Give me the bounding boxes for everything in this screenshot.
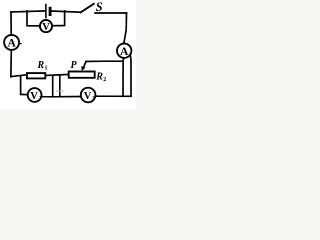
- svg-text:2: 2: [103, 77, 106, 83]
- wire switch to top-right corner: [95, 12, 127, 14]
- wire V3 left to junction leg: [60, 76, 81, 97]
- rheostat slider arrow wire: [86, 60, 123, 62]
- voltmeter V1: [40, 20, 52, 32]
- scan smudge: [56, 90, 64, 93]
- battery cell short thick plate: [49, 8, 52, 14]
- wire R1 to R2: [45, 74, 68, 75]
- rheostat slider arrowhead: [83, 62, 86, 69]
- svg-text:R: R: [95, 71, 103, 82]
- svg-text:V: V: [84, 91, 92, 102]
- svg-text:A: A: [7, 38, 16, 50]
- ammeter A1 terminal tick: [20, 43, 22, 45]
- wire battery to switch: [52, 11, 81, 12]
- svg-text:P: P: [71, 60, 78, 71]
- svg-text:R: R: [37, 60, 45, 71]
- voltmeter V2: [28, 88, 42, 102]
- wire A2 bottom stub to slider junction: [122, 58, 125, 61]
- wire A2 right-bottom down right outer leg: [129, 54, 132, 96]
- ammeter A2: [117, 44, 131, 58]
- voltmeter V2 loop left leg: [21, 76, 28, 95]
- wire rail segment V2 leg to V3 leg: [53, 96, 60, 98]
- wire V2 right to junction leg: [42, 77, 53, 97]
- voltmeter V1 loop right leg: [52, 11, 64, 26]
- branch wire left corner to R1: [11, 75, 27, 77]
- voltmeter V3: [81, 88, 96, 103]
- switch S blade: [81, 4, 94, 13]
- ammeter A1: [4, 35, 19, 50]
- wire right vertical down to ammeter A2: [124, 13, 127, 44]
- wire A1 to bottom-left corner: [10, 50, 12, 77]
- wire left vertical (top corner to A1): [10, 12, 12, 35]
- svg-text:V: V: [30, 91, 38, 102]
- svg-text:V: V: [42, 22, 50, 33]
- rheostat R2 box: [69, 72, 95, 78]
- wire top-left horizontal: [11, 11, 45, 12]
- wire bottom-right corner to voltmeter V3: [96, 95, 132, 97]
- wire slider junction down to bottom rail: [122, 61, 124, 96]
- svg-text:1: 1: [45, 66, 48, 72]
- battery cell long plate: [45, 5, 47, 18]
- svg-text:A: A: [120, 46, 129, 58]
- rheostat arrowhead tip: [81, 66, 85, 71]
- voltmeter V1 loop left leg: [27, 11, 40, 26]
- resistor R1 box: [27, 73, 45, 78]
- svg-text:S: S: [96, 0, 103, 14]
